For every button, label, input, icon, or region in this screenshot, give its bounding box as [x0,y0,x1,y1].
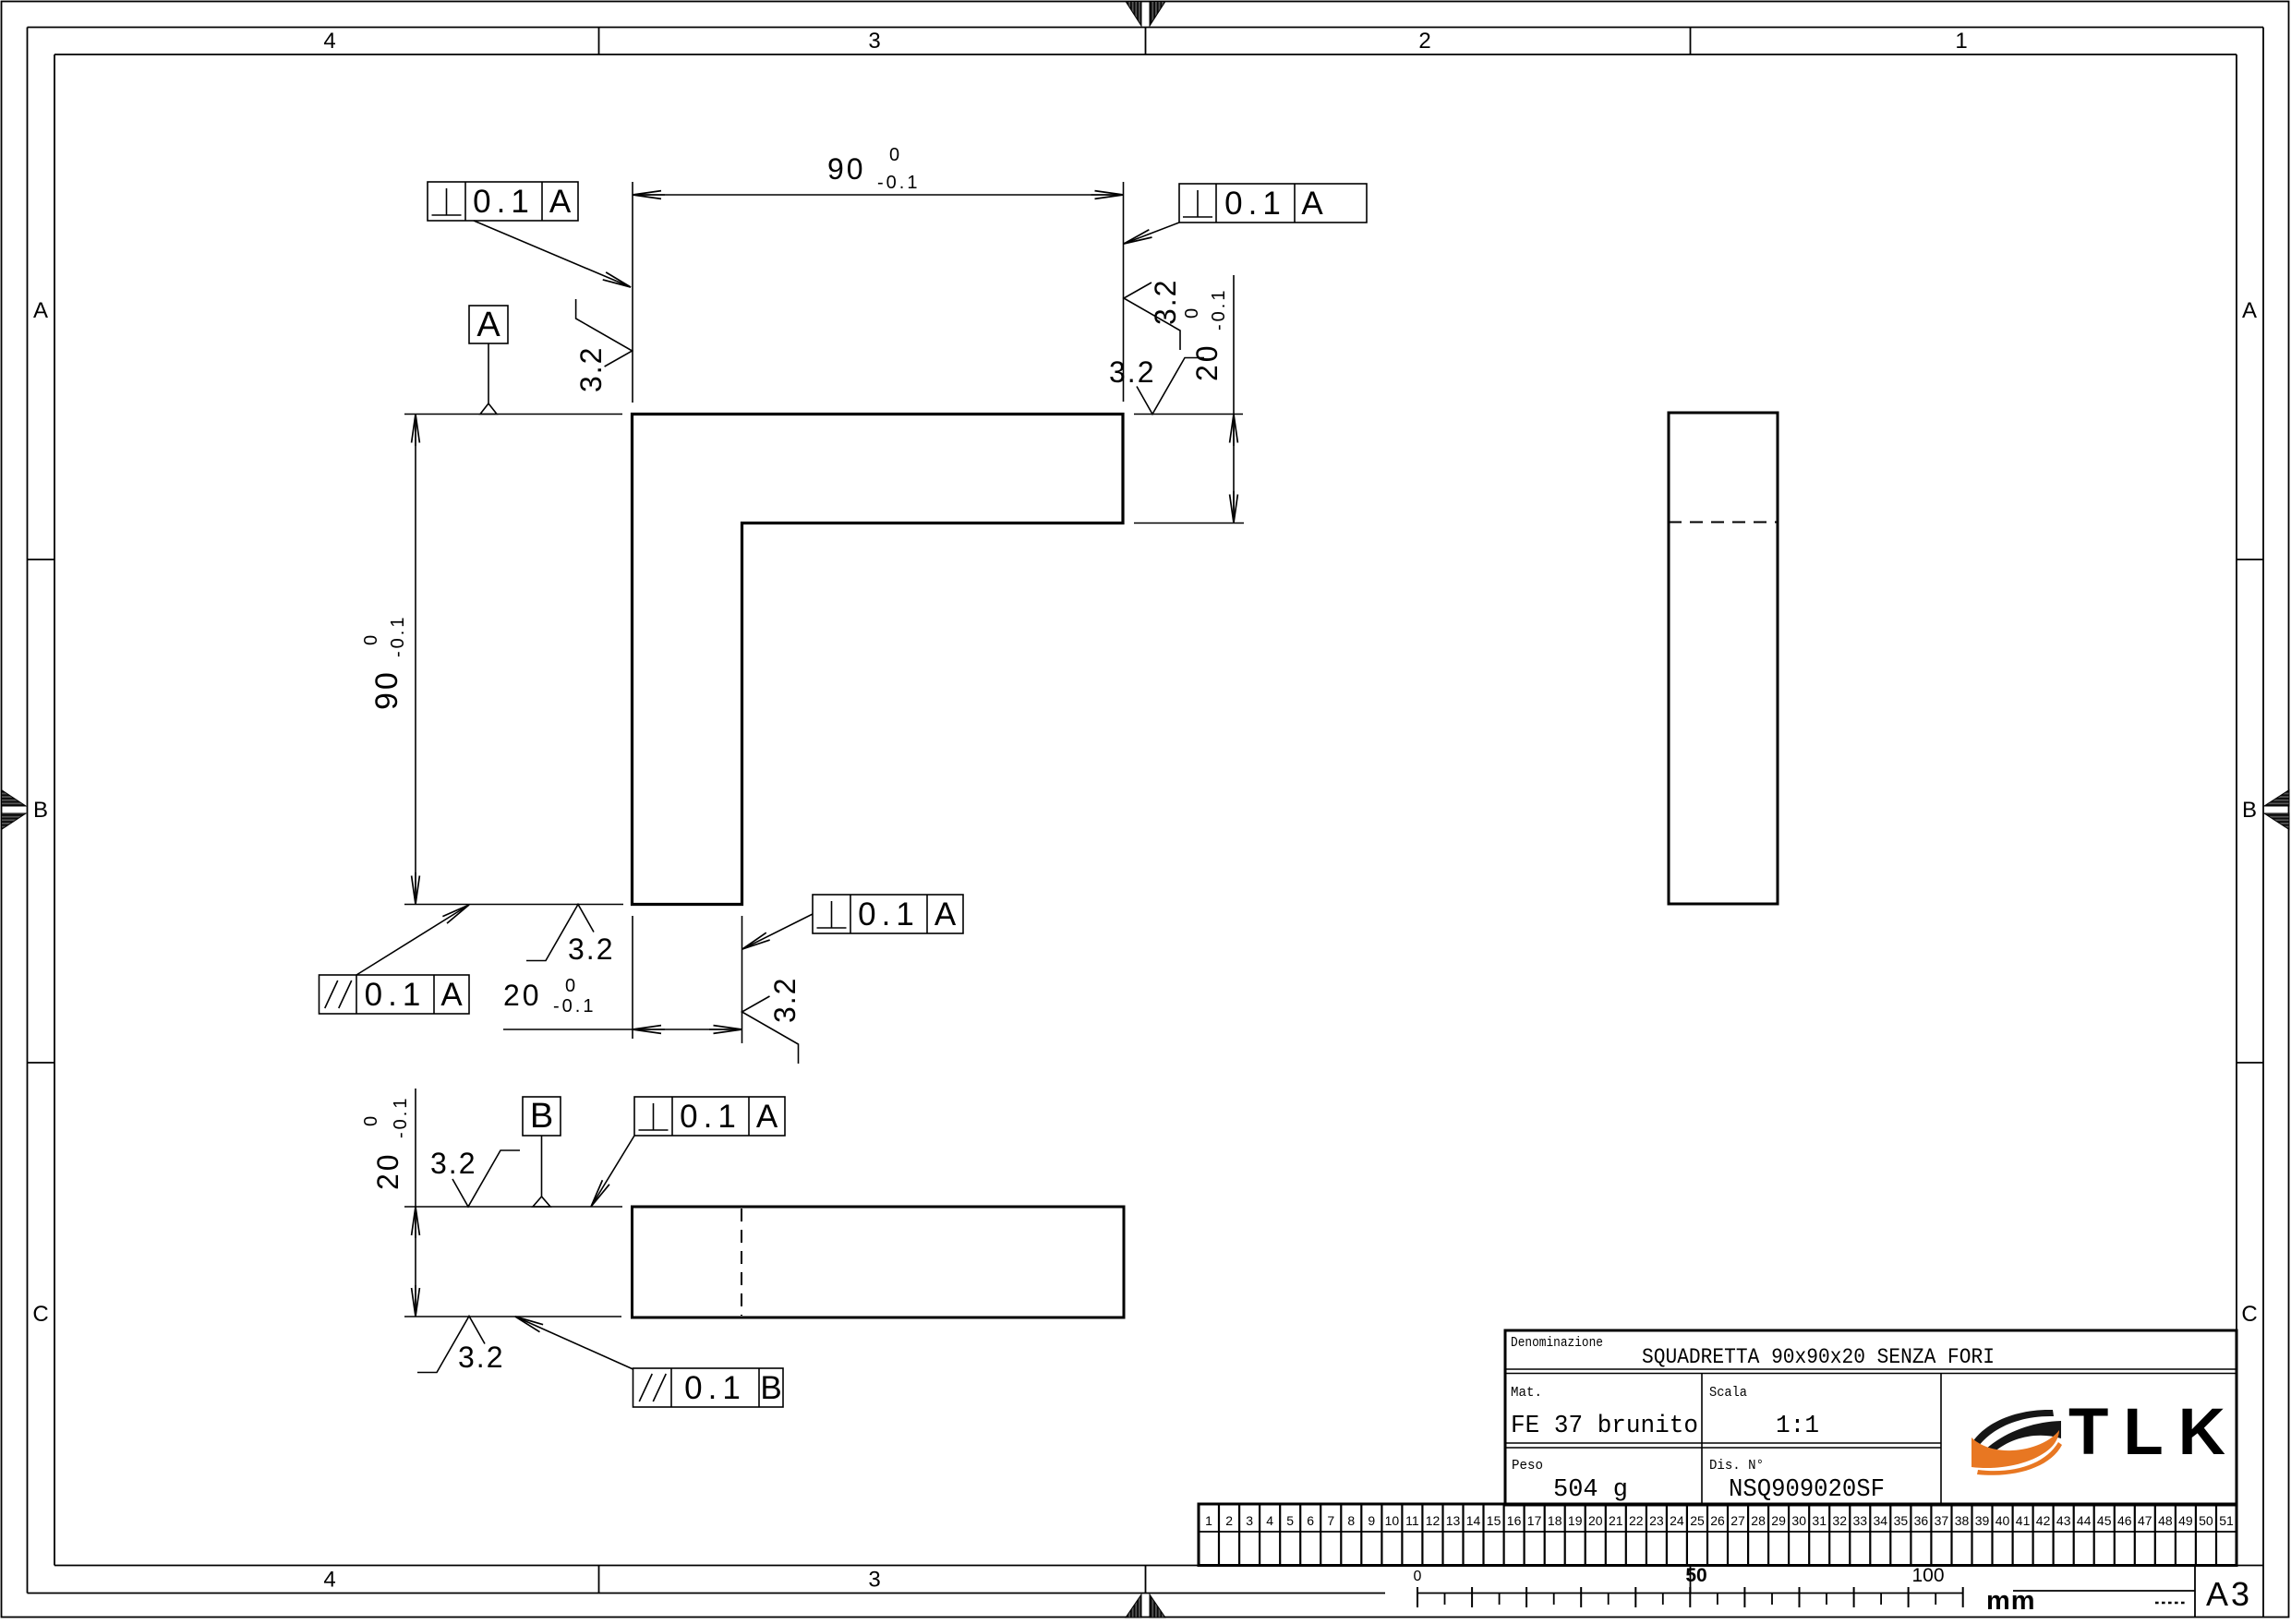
svg-text:4: 4 [323,29,335,54]
dimension 20 bottom view: dimension line with arrows [415,1089,416,1317]
svg-text:51: 51 [2219,1513,2234,1528]
svg-text:A: A [33,298,48,323]
svg-text:42: 42 [2036,1513,2051,1528]
svg-text:0: 0 [361,1116,381,1126]
svg-text:0: 0 [1414,1569,1422,1584]
svg-text:A: A [1301,186,1323,222]
dimension 20 0/-0.1 bottom view: extension lines [404,1207,622,1317]
centering mark right [2264,790,2289,830]
centering mark left [2,790,27,830]
svg-text:3.2: 3.2 [574,346,608,392]
svg-text:A: A [440,977,463,1013]
datum B symbol [523,1097,561,1207]
dimension 90 top: tolerance 0/-0.1 [877,145,920,193]
svg-text:44: 44 [2077,1513,2092,1528]
dimension 20 bottom: dimension line with arrows [503,1029,742,1030]
svg-text:34: 34 [1874,1513,1888,1528]
svg-text:-0.1: -0.1 [1209,288,1229,331]
svg-text:26: 26 [1710,1513,1725,1528]
svg-text:90: 90 [827,152,866,186]
dimension 20 right: tolerance (rotated) [1182,288,1229,331]
svg-text:30: 30 [1791,1513,1806,1528]
svg-text:23: 23 [1649,1513,1664,1528]
dimension 90 left: tolerance (rotated) [361,615,408,657]
svg-text:0.1: 0.1 [858,896,920,932]
svg-text:50: 50 [2199,1513,2213,1528]
svg-text:4: 4 [323,1568,335,1593]
dimension 90 left: dimension line with arrows [415,415,416,905]
svg-text:mm: mm [1986,1586,2036,1616]
svg-text:-0.1: -0.1 [877,173,920,193]
zone labels right [2241,298,2257,1327]
svg-text:Denominazione: Denominazione [1511,1335,1603,1351]
svg-text:Peso: Peso [1512,1458,1543,1474]
svg-text:0.1: 0.1 [684,1370,746,1406]
dimension 20 right: dimension line with arrows [1233,275,1235,523]
svg-text:32: 32 [1832,1513,1847,1528]
svg-text:48: 48 [2158,1513,2173,1528]
svg-text:0.1: 0.1 [473,184,535,220]
svg-text:B: B [530,1097,553,1136]
svg-text:18: 18 [1548,1513,1562,1528]
svg-text:39: 39 [1975,1513,1990,1528]
leader [515,1317,633,1369]
dimension 20 bottom view: tolerance (rotated) [361,1096,411,1138]
zone labels bottom [323,1568,880,1593]
title block frame [1505,1330,2237,1505]
zone labels left [32,298,48,1327]
svg-text:50: 50 [1685,1565,1706,1586]
svg-text:3.2: 3.2 [1149,279,1182,325]
zone dividers top band [599,28,1691,55]
front view: L-shaped bracket outline [633,415,1124,905]
svg-text:36: 36 [1914,1513,1929,1528]
surface finish 3.2 (top flange right, on extension line) [1109,355,1204,415]
svg-text:8: 8 [1347,1513,1355,1528]
svg-text:A: A [476,306,500,344]
svg-text:0: 0 [361,635,381,645]
svg-text:A: A [756,1099,778,1135]
svg-text:20: 20 [371,1151,404,1190]
svg-text:49: 49 [2178,1513,2193,1528]
FCF parallelism 0.1 B (below bottom view) [515,1317,783,1407]
surface finish 3.2 (bottom edge, below) [526,905,614,967]
svg-text:2: 2 [1225,1513,1233,1528]
FCF perpendicularity 0.1 A (top right) [1124,184,1367,244]
svg-text:A: A [549,184,572,220]
svg-text:3: 3 [868,29,880,54]
svg-text:20: 20 [503,979,542,1012]
svg-text:C: C [2241,1302,2257,1327]
svg-text:22: 22 [1629,1513,1644,1528]
surface finish 3.2 (bottom view bottom line) [417,1317,504,1375]
svg-text:5: 5 [1286,1513,1294,1528]
svg-text:19: 19 [1568,1513,1583,1528]
mm ruler [1414,1565,1963,1607]
svg-text:11: 11 [1405,1513,1419,1528]
svg-text:Scala: Scala [1709,1385,1747,1401]
svg-text:-0.1: -0.1 [388,615,408,657]
leader [356,905,469,975]
TLK logo swirl [1971,1410,2062,1475]
centering mark top [1126,2,1165,27]
svg-text:100: 100 [1911,1565,1944,1586]
svg-text:46: 46 [2117,1513,2132,1528]
svg-text:Mat.: Mat. [1511,1385,1542,1401]
svg-text:13: 13 [1446,1513,1461,1528]
leader [1124,223,1179,244]
svg-text:10: 10 [1385,1513,1400,1528]
svg-text:15: 15 [1487,1513,1501,1528]
side view rectangle [1669,413,1778,904]
datum A symbol [469,306,508,415]
svg-text:3.2: 3.2 [430,1147,476,1180]
svg-text:SQUADRETTA 90x90x20 SENZA FORI: SQUADRETTA 90x90x20 SENZA FORI [1642,1345,1995,1369]
svg-text:16: 16 [1507,1513,1522,1528]
dimension 20 0/-0.1 right of top flange: extension lines [1134,415,1244,523]
svg-text:504 g: 504 g [1553,1476,1628,1504]
svg-text:3.2: 3.2 [1109,355,1155,389]
svg-text:4: 4 [1266,1513,1273,1528]
svg-text:0.1: 0.1 [680,1099,742,1135]
svg-text:1:1: 1:1 [1776,1413,1819,1440]
svg-text:33: 33 [1853,1513,1868,1528]
surface finish 3.2 (left edge, front view) [574,299,633,392]
svg-text:90: 90 [369,669,404,710]
svg-text:0.1: 0.1 [1224,186,1286,222]
side view hidden edge (dashed) [1669,522,1778,523]
svg-text:28: 28 [1751,1513,1766,1528]
svg-text:6: 6 [1307,1513,1314,1528]
svg-text:24: 24 [1670,1513,1684,1528]
svg-text:3.2: 3.2 [568,932,614,966]
svg-text:FE 37 brunito: FE 37 brunito [1511,1413,1698,1440]
svg-text:47: 47 [2138,1513,2152,1528]
svg-text:25: 25 [1690,1513,1705,1528]
zone dividers right band [2237,559,2263,1063]
svg-text:TLK: TLK [2068,1396,2240,1469]
dimension 20 bottom: tolerance [553,976,596,1017]
FCF parallelism 0.1 A (left, lower) [320,905,470,1014]
bottom view rectangle [633,1207,1125,1317]
FCF perpendicularity 0.1 A (middle, at inner leg) [742,895,963,949]
FCF perpendicularity 0.1 A (bottom view) [591,1097,785,1207]
svg-text:20: 20 [1190,343,1224,381]
svg-text:43: 43 [2056,1513,2071,1528]
dimension 90 top: dimension line with arrows [633,194,1124,196]
svg-text:20: 20 [1588,1513,1603,1528]
svg-text:-0.1: -0.1 [553,996,596,1017]
svg-text:A3: A3 [2206,1575,2252,1613]
svg-text:29: 29 [1771,1513,1786,1528]
svg-text:37: 37 [1935,1513,1949,1528]
revision strip cells 1-51 [1199,1504,2237,1566]
leader [742,914,813,949]
svg-text:1: 1 [1955,29,1967,54]
svg-text:3: 3 [1246,1513,1253,1528]
centering mark bottom [1126,1594,1165,1618]
svg-text:1: 1 [1205,1513,1212,1528]
svg-text:12: 12 [1426,1513,1441,1528]
A3 format box [2195,1566,2252,1618]
svg-text:Dis. N°: Dis. N° [1709,1458,1764,1474]
svg-text:0: 0 [565,976,575,996]
svg-text:31: 31 [1812,1513,1827,1528]
svg-text:A: A [2242,298,2257,323]
dots [2155,1602,2185,1605]
svg-text:7: 7 [1327,1513,1334,1528]
svg-text:40: 40 [1996,1513,2010,1528]
surface finish 3.2 (inner leg extension, lower right) [742,977,802,1064]
svg-text:0.1: 0.1 [365,977,427,1013]
svg-text:9: 9 [1368,1513,1375,1528]
surface finish 3.2 (right edge above flange) [1124,279,1182,350]
leader [591,1136,634,1207]
surface finish 3.2 (bottom view top line) [430,1147,520,1207]
svg-text:0: 0 [1182,308,1202,319]
svg-text:0: 0 [889,145,899,165]
svg-text:2: 2 [1418,29,1430,54]
dimension 20 0/-0.1 bottom left leg: extension lines [633,916,742,1043]
FCF perpendicularity 0.1 A (top left) [428,182,631,287]
dimension 90 0/-0.1 top: extension lines [633,182,1124,403]
svg-text:38: 38 [1955,1513,1970,1528]
svg-text:21: 21 [1609,1513,1623,1528]
zone labels top [323,29,1967,54]
svg-text:35: 35 [1894,1513,1909,1528]
svg-text:B: B [760,1370,781,1406]
svg-text:3: 3 [868,1568,880,1593]
svg-text:A: A [934,896,957,932]
svg-text:B: B [33,798,48,823]
svg-text:14: 14 [1466,1513,1481,1528]
svg-text:B: B [2242,798,2257,823]
svg-text:27: 27 [1730,1513,1745,1528]
dimension 90 0/-0.1 left: extension lines [404,415,623,905]
leader [474,221,631,287]
zone dividers bottom band [599,1566,1691,1594]
svg-text:17: 17 [1527,1513,1542,1528]
svg-text:C: C [32,1302,48,1327]
svg-text:3.2: 3.2 [768,977,802,1023]
svg-text:NSQ909020SF: NSQ909020SF [1729,1476,1885,1504]
svg-text:3.2: 3.2 [458,1341,504,1374]
svg-text:41: 41 [2016,1513,2031,1528]
bottom view hidden edge (dashed) [741,1209,742,1316]
zone dividers left band [28,559,55,1063]
svg-text:-0.1: -0.1 [391,1096,411,1138]
svg-text:45: 45 [2097,1513,2112,1528]
